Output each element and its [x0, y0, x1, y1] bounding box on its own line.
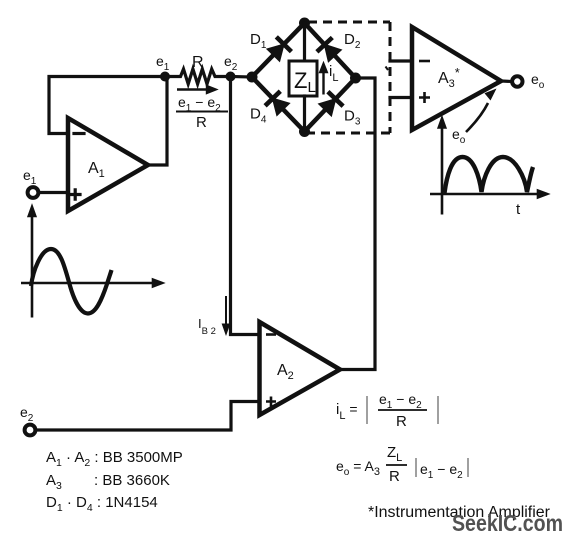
- resistor R: [165, 54, 231, 84]
- svg-text:R: R: [389, 468, 400, 485]
- output waveform humps: [445, 157, 534, 193]
- input sine wave: [31, 249, 112, 314]
- current arrow I_B2: [198, 296, 229, 337]
- svg-text:R: R: [192, 54, 204, 71]
- wire e2 to bridge: [231, 75, 253, 79]
- load Z_L: [289, 61, 317, 96]
- node bridge right: [350, 73, 361, 84]
- wire ZL bottom: [303, 96, 306, 132]
- terminal e2: [20, 404, 35, 435]
- wire bridge right to A2 output: [340, 78, 375, 370]
- svg-text:R: R: [196, 114, 207, 131]
- wire e2 node down to A2 minus: [231, 77, 260, 335]
- wire ZL top: [303, 23, 306, 61]
- input waveform axis horizontal: [21, 280, 162, 287]
- output waveform axis horizontal: [430, 191, 547, 198]
- diode D1: [250, 31, 291, 61]
- diode D3: [319, 92, 361, 128]
- wire stub A3 plus: [390, 96, 412, 99]
- node bridge bottom: [299, 126, 310, 137]
- wire A1 output: [148, 77, 167, 166]
- bridge edge right-bottom: [305, 78, 356, 132]
- wire A3 output: [501, 79, 512, 83]
- wire A1 feedback top: [49, 77, 167, 134]
- curved arrow to A3: [466, 103, 488, 132]
- stray mark: [386, 67, 389, 71]
- node e2: [224, 53, 238, 82]
- node bridge left: [247, 72, 258, 83]
- svg-text:R: R: [396, 413, 407, 430]
- op-amp A3: [412, 27, 501, 130]
- bridge edge bottom-left: [252, 77, 305, 132]
- current label (e1-e2)/R: [176, 86, 228, 131]
- diode D4: [250, 91, 289, 125]
- current arrow iL: [320, 63, 338, 95]
- node bridge top: [299, 18, 310, 29]
- wire e1 input: [39, 191, 68, 194]
- output waveform axis vertical: [439, 119, 445, 215]
- terminal e_o: [512, 71, 545, 91]
- bridge edge left-top: [252, 23, 305, 77]
- dashed box: [308, 22, 390, 133]
- op-amp A1: [68, 118, 148, 211]
- svg-text:SeekIC.com: SeekIC.com: [452, 510, 563, 536]
- terminal e1: [23, 167, 38, 198]
- bridge edge top-right: [305, 23, 356, 78]
- node e1: [156, 53, 170, 82]
- wire stub A3 minus: [390, 59, 412, 62]
- equation e_o: [336, 444, 468, 485]
- diode D2: [317, 31, 361, 61]
- op-amp A2: [260, 322, 341, 415]
- input waveform axis vertical: [29, 207, 35, 318]
- wire e2 to A2 plus: [36, 402, 260, 431]
- equation i_L: [336, 391, 438, 430]
